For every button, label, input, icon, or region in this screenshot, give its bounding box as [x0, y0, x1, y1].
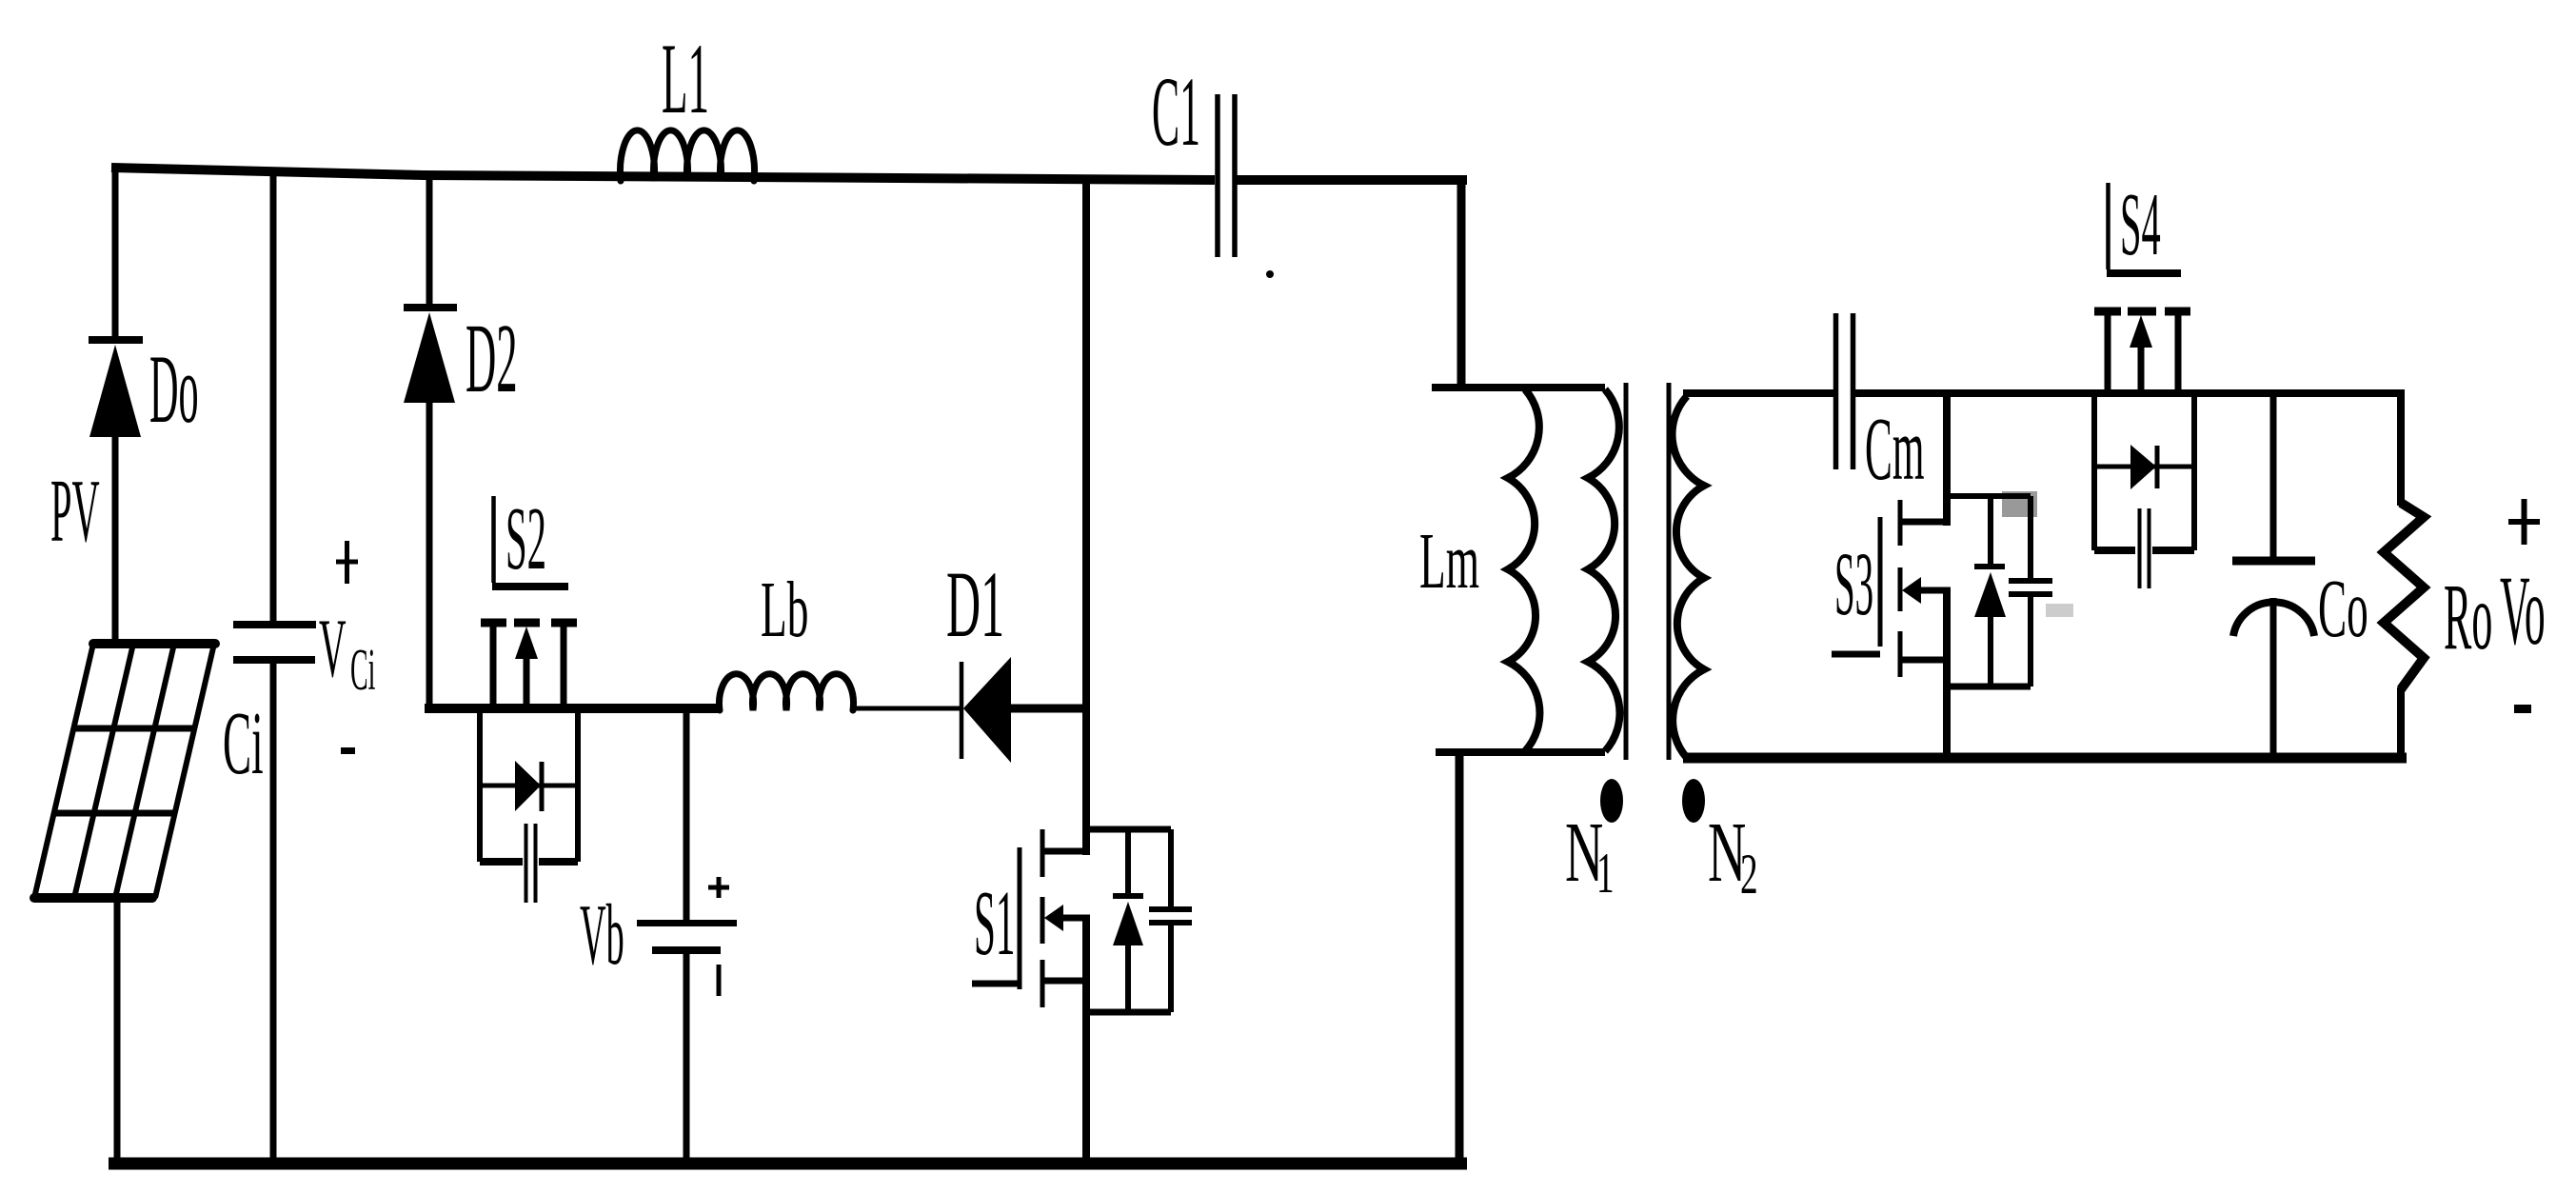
- svg-text:Vo: Vo: [2500, 557, 2546, 667]
- svg-text:S1: S1: [974, 872, 1015, 975]
- svg-text:2: 2: [1740, 843, 1758, 905]
- svg-text:C1: C1: [1152, 58, 1200, 168]
- svg-text:Lm: Lm: [1419, 516, 1479, 605]
- svg-text:Do: Do: [149, 336, 199, 445]
- svg-text:Ci: Ci: [223, 693, 264, 793]
- svg-text:L1: L1: [662, 22, 709, 134]
- svg-text:Cm: Cm: [1865, 399, 1924, 498]
- svg-text:S4: S4: [2120, 175, 2161, 274]
- svg-text:Vb: Vb: [580, 887, 624, 983]
- svg-text:S3: S3: [1834, 533, 1873, 634]
- svg-text:Ci: Ci: [350, 638, 375, 703]
- svg-text:Co: Co: [2318, 562, 2368, 654]
- svg-text:S2: S2: [505, 488, 546, 588]
- svg-text:D2: D2: [466, 305, 518, 413]
- svg-text:PV: PV: [50, 462, 100, 561]
- svg-text:Lb: Lb: [761, 565, 808, 653]
- svg-text:D1: D1: [946, 553, 1004, 658]
- svg-text:1: 1: [1596, 842, 1615, 905]
- svg-text:V: V: [319, 601, 347, 694]
- svg-text:Ro: Ro: [2444, 564, 2492, 669]
